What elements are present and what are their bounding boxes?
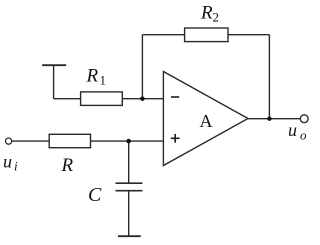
svg-text:u: u <box>288 120 297 140</box>
svg-text:2: 2 <box>213 10 220 25</box>
svg-text:i: i <box>14 158 18 173</box>
svg-text:R: R <box>86 66 99 87</box>
svg-text:R: R <box>200 3 213 24</box>
svg-text:A: A <box>200 111 213 131</box>
svg-text:o: o <box>300 128 307 143</box>
svg-text:u: u <box>3 151 12 171</box>
svg-text:1: 1 <box>100 73 107 88</box>
svg-text:C: C <box>88 184 102 206</box>
svg-text:R: R <box>61 155 74 176</box>
